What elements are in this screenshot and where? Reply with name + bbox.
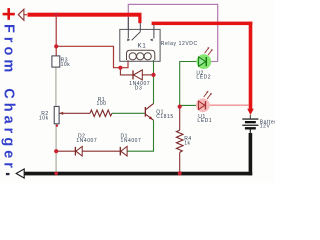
- label + (red): [3, 8, 15, 20]
- wire R1 to Q1 base (green): [112, 112, 145, 114]
- node junction dots: [54, 13, 182, 176]
- node From Charger - terminal: [16, 169, 24, 178]
- node battery + terminal arrow: [247, 109, 254, 115]
- svg-text:1N4007: 1N4007: [76, 138, 97, 144]
- wire R2 wiper to R1: [60, 112, 91, 114]
- svg-text:C1815: C1815: [156, 114, 173, 120]
- wire LED1 cathode to battery + (pink): [206, 104, 249, 106]
- diode D2 1N4007: [75, 134, 97, 156]
- wire relay coil to Q1 collector (green): [153, 60, 155, 104]
- wire ground (thick black): [25, 133, 253, 175]
- relay coil: [127, 50, 155, 60]
- wire LED2 cathode to purple net: [207, 61, 218, 63]
- label From Charger (blue, rotated): [1, 24, 17, 172]
- wire coil left / D3 leads: [120, 68, 153, 75]
- LED U2 LED2 (green): [196, 47, 212, 80]
- relay K1 box: [120, 29, 198, 61]
- wire Q1 emitter to D1 (green): [127, 120, 154, 151]
- transistor Q1 C1815: [145, 104, 174, 121]
- wire battery positive (thick red right): [152, 22, 253, 110]
- wire R3 to R2 (gray): [55, 67, 57, 106]
- resistor R4: [176, 130, 191, 152]
- diode D3 1N4007 (flyback): [129, 70, 150, 92]
- svg-text:LED1: LED1: [197, 118, 212, 124]
- svg-text:LED2: LED2: [196, 74, 211, 80]
- svg-text:Relay 12VDC: Relay 12VDC: [161, 41, 198, 47]
- relay contact pins: [127, 17, 154, 41]
- battery BAT 12V: [242, 115, 279, 133]
- svg-text:12V: 12V: [260, 124, 271, 130]
- resistor R1: [90, 97, 112, 117]
- wire LED2 anode (green): [180, 62, 197, 107]
- svg-text:K1: K1: [138, 43, 147, 49]
- wire relay NC to LED2 (purple): [128, 4, 217, 61]
- diode D1 1N4007: [120, 134, 141, 156]
- wire R2 to ground (gray): [55, 124, 57, 172]
- svg-text:10k: 10k: [39, 115, 49, 121]
- wire +12V to R3 and relay coil (thin red): [56, 17, 128, 68]
- resistor R2 (preset): [39, 106, 63, 123]
- label - (dark): [6, 173, 10, 175]
- svg-text:1N4007: 1N4007: [121, 138, 142, 144]
- svg-text:From Charger: From Charger: [1, 24, 17, 172]
- svg-text:10k: 10k: [61, 62, 71, 68]
- LED U1 LED1 (red): [196, 91, 212, 124]
- wire R4 leads: [179, 107, 181, 172]
- wire diode chain to ground node: [56, 150, 120, 152]
- svg-text:100: 100: [97, 101, 107, 107]
- wire +12V top (thick red): [24, 13, 142, 24]
- svg-text:1k: 1k: [184, 140, 190, 146]
- svg-text:D3: D3: [135, 86, 143, 92]
- wire LED1 anode (green): [180, 104, 197, 106]
- node From Charger + terminal: [18, 9, 24, 20]
- resistor R3: [52, 56, 70, 68]
